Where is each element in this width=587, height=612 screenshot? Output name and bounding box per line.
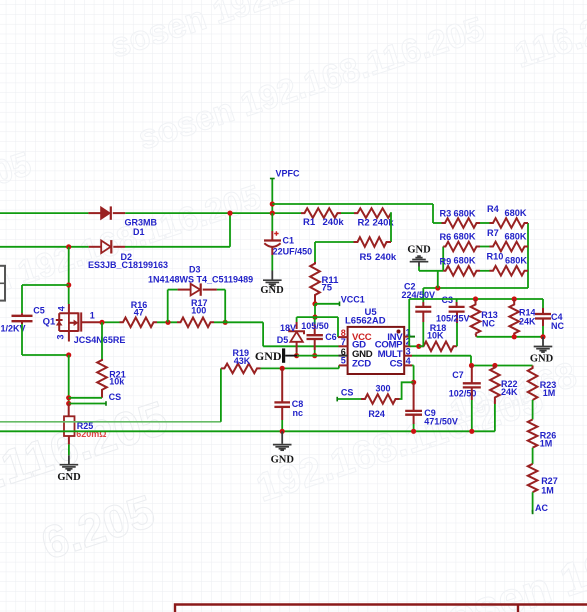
wire xyxy=(412,355,471,357)
capacitor C9 xyxy=(413,382,415,411)
resistor R11 xyxy=(310,262,320,304)
svg-text:CS: CS xyxy=(341,388,354,398)
transistor Q1 xyxy=(68,304,70,313)
svg-text:3: 3 xyxy=(406,346,411,356)
op-amp U5 L6562AD xyxy=(348,327,405,374)
svg-text:R7: R7 xyxy=(487,228,499,238)
junction xyxy=(512,334,517,339)
wire xyxy=(480,246,490,248)
wire xyxy=(125,246,230,248)
pin 2 xyxy=(404,345,410,347)
svg-text:47: 47 xyxy=(134,307,144,317)
pin 7 xyxy=(339,345,348,347)
svg-text:471/50V: 471/50V xyxy=(424,416,458,426)
svg-text:D3: D3 xyxy=(189,264,201,274)
svg-text:VCC1: VCC1 xyxy=(341,294,365,304)
svg-text:AC: AC xyxy=(535,503,548,513)
wire xyxy=(315,241,354,243)
resistor R4 xyxy=(490,218,529,228)
wire xyxy=(480,270,490,272)
junction xyxy=(223,320,228,325)
junction xyxy=(294,353,299,358)
junction xyxy=(411,429,416,434)
resistor R6 xyxy=(443,242,480,252)
wire xyxy=(409,298,543,300)
svg-text:680K: 680K xyxy=(454,232,476,242)
wire xyxy=(229,213,231,247)
svg-text:R3: R3 xyxy=(440,209,452,219)
junction xyxy=(312,301,317,306)
wire xyxy=(167,290,169,323)
junction xyxy=(540,334,545,339)
wire xyxy=(68,355,70,404)
svg-text:NC: NC xyxy=(482,319,495,329)
svg-text:C3: C3 xyxy=(442,295,454,305)
resistor R14 xyxy=(509,299,519,337)
pin 4 xyxy=(404,364,412,366)
svg-text:C6: C6 xyxy=(325,332,337,342)
wire xyxy=(21,321,23,324)
wire xyxy=(22,284,69,286)
wire xyxy=(532,448,534,464)
pin 1 xyxy=(404,336,408,338)
junction xyxy=(469,429,474,434)
svg-text:R4: R4 xyxy=(487,204,500,214)
svg-text:D5: D5 xyxy=(277,335,289,345)
junction xyxy=(99,320,104,325)
svg-text:R1: R1 xyxy=(303,217,316,228)
svg-text:680K: 680K xyxy=(454,208,476,218)
pin 3 xyxy=(404,355,412,357)
capacitor C2 xyxy=(422,288,424,302)
junction xyxy=(270,201,275,206)
svg-text:105/25V: 105/25V xyxy=(436,313,470,323)
svg-text:1M: 1M xyxy=(541,485,554,495)
wire xyxy=(480,222,490,224)
svg-text:24K: 24K xyxy=(501,387,518,397)
resistor R3 xyxy=(442,218,481,228)
resistor R21 xyxy=(97,359,107,398)
wire xyxy=(341,212,354,214)
svg-text:nc: nc xyxy=(293,408,304,418)
resistor R24 xyxy=(361,394,400,404)
junction xyxy=(512,296,517,301)
wire xyxy=(0,430,495,432)
svg-text:C7: C7 xyxy=(452,370,464,380)
resistor R1 xyxy=(301,208,341,218)
net CS xyxy=(69,403,106,405)
svg-text:GND: GND xyxy=(407,245,431,256)
pin 8 xyxy=(338,336,348,338)
wire xyxy=(418,267,420,271)
junction xyxy=(66,244,71,249)
capacitor C5 xyxy=(21,313,23,316)
wire xyxy=(220,368,222,421)
capacitor C4 xyxy=(542,299,544,308)
frame border xyxy=(175,605,587,612)
svg-text:4: 4 xyxy=(406,356,411,366)
svg-text:18V: 18V xyxy=(280,323,296,333)
wire xyxy=(0,212,88,214)
svg-text:1N4148WS T4_C5119489: 1N4148WS T4_C5119489 xyxy=(148,274,253,284)
svg-text:C1: C1 xyxy=(283,235,295,245)
junction xyxy=(492,363,497,368)
svg-text:Q1: Q1 xyxy=(43,317,56,328)
svg-text:300: 300 xyxy=(376,383,391,393)
wire xyxy=(456,323,458,346)
svg-text:L6562AD: L6562AD xyxy=(345,315,386,326)
junction xyxy=(66,282,71,287)
junction xyxy=(416,344,421,349)
ground xyxy=(68,455,70,464)
ground xyxy=(271,271,273,280)
wire xyxy=(214,321,263,323)
svg-text:C5: C5 xyxy=(33,305,45,315)
wire xyxy=(272,203,433,205)
svg-text:4: 4 xyxy=(57,306,67,311)
svg-text:GND: GND xyxy=(57,472,81,483)
svg-text:JCS4N65RE: JCS4N65RE xyxy=(74,335,126,345)
resistor R9 xyxy=(443,266,480,276)
wire xyxy=(157,321,177,323)
pin 6 xyxy=(339,355,348,357)
pin 5 xyxy=(339,364,348,366)
svg-text:7: 7 xyxy=(341,337,346,347)
junction xyxy=(312,315,317,320)
junction xyxy=(435,285,440,290)
svg-text:1: 1 xyxy=(90,310,95,320)
net AC xyxy=(532,492,534,512)
wire xyxy=(217,289,225,291)
svg-text:R10: R10 xyxy=(487,252,504,262)
svg-text:R9: R9 xyxy=(440,257,452,267)
wire xyxy=(297,316,338,318)
junction xyxy=(280,429,285,434)
wire xyxy=(433,222,442,224)
svg-text:R6: R6 xyxy=(440,232,452,242)
ground flag GND xyxy=(282,348,285,362)
svg-text:R24: R24 xyxy=(368,409,385,419)
svg-text:10k: 10k xyxy=(109,377,125,387)
junction xyxy=(473,296,478,301)
wire xyxy=(69,397,102,399)
wire xyxy=(527,223,529,288)
svg-text:GND: GND xyxy=(260,285,284,296)
wire xyxy=(125,212,301,214)
wire xyxy=(412,364,414,366)
diode D3 xyxy=(178,289,191,291)
svg-text:GND: GND xyxy=(271,454,295,465)
resistor R7 xyxy=(490,242,529,252)
resistor R17 xyxy=(177,318,214,328)
resistor R27 xyxy=(528,464,538,492)
svg-text:R2: R2 xyxy=(358,217,370,228)
svg-text:5: 5 xyxy=(341,355,346,365)
svg-text:R27: R27 xyxy=(541,476,558,486)
junction xyxy=(66,352,71,357)
svg-text:CS: CS xyxy=(390,359,404,370)
wire xyxy=(532,400,534,420)
svg-text:GND: GND xyxy=(255,349,282,363)
wire xyxy=(494,404,496,431)
connector P? partial xyxy=(0,266,5,301)
svg-text:1M: 1M xyxy=(543,388,556,398)
svg-text:VPFC: VPFC xyxy=(276,169,301,179)
wire xyxy=(411,345,419,347)
resistor R16 xyxy=(120,318,158,328)
junction xyxy=(165,320,170,325)
wire xyxy=(442,247,444,271)
svg-text:75: 75 xyxy=(322,282,333,293)
svg-text:240k: 240k xyxy=(375,252,397,263)
junction xyxy=(270,211,275,216)
svg-text:100: 100 xyxy=(191,305,206,315)
capacitor C1 xyxy=(271,213,273,231)
svg-text:680K: 680K xyxy=(454,256,476,266)
svg-text:ZCD: ZCD xyxy=(352,359,371,370)
diode D5 zener 18V xyxy=(296,317,298,322)
svg-text:1M: 1M xyxy=(540,438,553,448)
resistor R18 xyxy=(419,342,457,352)
resistor R19 xyxy=(221,364,261,374)
resistor R22 xyxy=(490,366,500,405)
resistor R5 xyxy=(354,237,392,247)
svg-text:3: 3 xyxy=(56,334,66,339)
svg-text:680K: 680K xyxy=(505,256,527,266)
junction xyxy=(312,353,317,358)
resistor R25 xyxy=(68,404,70,417)
junction xyxy=(227,211,232,216)
wire xyxy=(261,367,339,369)
junction xyxy=(280,366,285,371)
capacitor C6 xyxy=(314,317,316,324)
svg-text:ES3JB_C18199163: ES3JB_C18199163 xyxy=(88,260,168,270)
junction xyxy=(66,401,71,406)
resistor R2 xyxy=(354,208,391,218)
junction xyxy=(411,380,416,385)
wire xyxy=(471,365,533,367)
wire xyxy=(314,304,316,317)
svg-text:10K: 10K xyxy=(427,331,444,341)
wire xyxy=(390,212,392,242)
svg-text:680K: 680K xyxy=(505,208,527,218)
svg-text:R5: R5 xyxy=(360,252,373,263)
svg-text:240k: 240k xyxy=(323,217,345,228)
net CS xyxy=(337,398,361,400)
svg-text:22UF/450: 22UF/450 xyxy=(273,246,313,256)
svg-text:680K: 680K xyxy=(505,232,527,242)
svg-text:CS: CS xyxy=(109,392,122,402)
svg-text:24K: 24K xyxy=(519,317,536,327)
ground xyxy=(542,337,544,346)
wire xyxy=(0,246,89,248)
wire xyxy=(423,287,528,289)
net VCC1 xyxy=(315,303,340,305)
capacitor C7 xyxy=(471,366,473,384)
svg-text:105/50: 105/50 xyxy=(301,321,329,331)
svg-text:D1: D1 xyxy=(133,227,145,237)
wire xyxy=(297,355,339,357)
wire xyxy=(400,382,414,399)
ground xyxy=(281,431,283,444)
wire xyxy=(271,248,273,255)
resistor R10 xyxy=(490,266,529,276)
capacitor C3 xyxy=(449,306,465,308)
wire xyxy=(105,321,120,323)
wire xyxy=(271,179,273,214)
svg-text:GND: GND xyxy=(530,353,554,364)
wire xyxy=(0,421,221,423)
diode D2 xyxy=(89,246,102,248)
svg-text:43K: 43K xyxy=(234,356,251,366)
wire xyxy=(477,336,544,338)
resistor R23 xyxy=(528,366,538,401)
wire xyxy=(68,247,70,304)
wire xyxy=(101,322,103,359)
junction xyxy=(66,395,71,400)
capacitor C8 xyxy=(281,368,283,402)
resistor R26 xyxy=(528,420,538,448)
wire xyxy=(68,436,70,444)
diode D1 xyxy=(88,212,100,214)
svg-text:NC: NC xyxy=(551,321,564,331)
resistor R13 xyxy=(471,299,481,334)
junction xyxy=(469,363,474,368)
